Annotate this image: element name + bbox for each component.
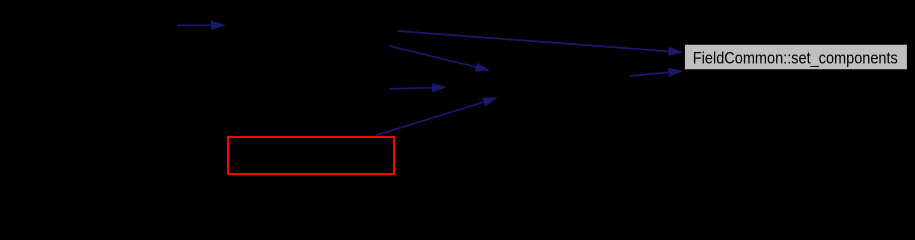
wire edge E2 arrowhead xyxy=(668,47,683,56)
node truncated caller (red border, hidden label) xyxy=(228,137,394,174)
wire edge E3 arrowhead xyxy=(475,63,491,72)
wire edge E6 arrowhead xyxy=(668,68,683,77)
wire edge E3 shaft (second node to hidden middle node) xyxy=(389,46,476,67)
wire edge E6 shaft (hidden middle node to FieldCommon::set_components) xyxy=(630,72,669,76)
wire edge E4 arrowhead xyxy=(432,83,447,92)
svg-text:FieldCommon::set_components: FieldCommon::set_components xyxy=(693,49,898,67)
wire edge E2 shaft (second node to FieldCommon::set_components) xyxy=(398,31,670,51)
wire edge E5 shaft (red truncated node to hidden middle node) xyxy=(376,102,484,135)
wire edge E4 shaft (lower second-column node to hidden middle node) xyxy=(389,88,432,89)
wire edge E1 arrowhead xyxy=(211,21,226,30)
wire edge E5 arrowhead xyxy=(482,98,498,107)
node FieldCommon::set_components (highlighted, grey fill) xyxy=(684,44,908,70)
wire edge E1 shaft (left node to second node) xyxy=(177,24,211,26)
